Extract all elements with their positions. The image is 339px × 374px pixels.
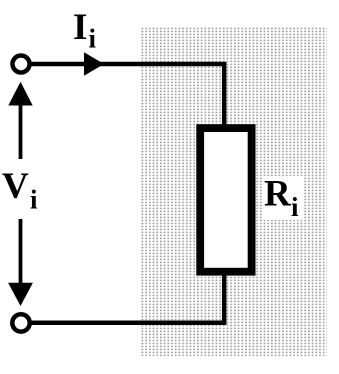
svg-text:V: V [2, 166, 29, 207]
svg-text:R: R [264, 174, 292, 215]
resistor R_i (rectangular body) [200, 128, 251, 272]
svg-text:I: I [73, 7, 87, 48]
svg-text:i: i [89, 24, 97, 54]
svg-text:i: i [30, 185, 38, 215]
current arrow on top wire [84, 52, 104, 76]
terminal (bottom-left, open circle) [12, 314, 29, 331]
voltage arrow lower half (arrowhead down) [19, 219, 23, 284]
voltage arrow upper half (arrowhead up) [19, 104, 23, 159]
terminal (top-left, open circle) [13, 56, 30, 73]
wire: top conductor from input terminal to resistor top [21, 64, 224, 130]
svg-text:i: i [291, 192, 299, 222]
wire: bottom conductor from resistor bottom to output terminal [21, 270, 224, 323]
label R_i (with white backing) [262, 176, 304, 220]
stippled region (dashed-box interior shading) [142, 27, 328, 357]
